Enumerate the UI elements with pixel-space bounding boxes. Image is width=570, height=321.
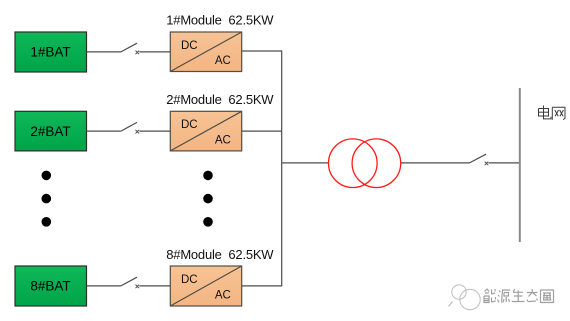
svg-text:DC: DC: [181, 40, 198, 52]
wire module8 to bus: [242, 285, 282, 287]
wire battery2 to switch2: [87, 130, 121, 132]
switch S1: [121, 43, 139, 54]
svg-text:AC: AC: [215, 289, 231, 301]
svg-text:DC: DC: [181, 119, 198, 131]
converter module U2: [170, 111, 241, 151]
switch S8: [121, 277, 139, 288]
switch S9 grid breaker: [470, 154, 489, 165]
svg-text:AC: AC: [215, 134, 231, 146]
svg-text:2#BAT: 2#BAT: [30, 124, 70, 139]
converter module U8: [170, 266, 241, 306]
wire battery8 to switch8: [87, 285, 121, 287]
svg-text:2#Module 62.5KW: 2#Module 62.5KW: [166, 92, 274, 107]
bus vertical line: [281, 50, 283, 286]
wire battery1 to switch1: [87, 51, 121, 53]
ellipsis dots right column: [203, 171, 213, 227]
ellipsis dots left column: [42, 171, 52, 227]
svg-text:8#Module 62.5KW: 8#Module 62.5KW: [166, 247, 274, 262]
battery 1#BAT: [15, 32, 87, 72]
svg-text:AC: AC: [215, 55, 231, 67]
watermark logo icon: [449, 285, 481, 310]
wire module1 to bus: [242, 50, 282, 52]
wire switch2 to module2: [139, 130, 170, 132]
label 电网 (grid): [539, 106, 566, 120]
wire transformer to switch9: [401, 162, 470, 164]
watermark text 能源生态圈: [484, 289, 554, 303]
grid bus line: [519, 88, 521, 242]
wire bus to transformer: [282, 162, 329, 164]
converter module U1: [170, 32, 241, 72]
battery 8#BAT: [15, 266, 87, 306]
transformer T1: [329, 139, 401, 188]
svg-text:1#BAT: 1#BAT: [30, 45, 70, 60]
switch S2: [121, 122, 139, 133]
svg-text:8#BAT: 8#BAT: [30, 279, 70, 294]
svg-text:1#Module 62.5KW: 1#Module 62.5KW: [166, 13, 274, 28]
wire module2 to bus: [242, 130, 282, 132]
svg-text:DC: DC: [181, 274, 198, 286]
wire switch8 to module8: [139, 285, 170, 287]
wire switch1 to module1: [139, 51, 170, 53]
battery 2#BAT: [15, 111, 87, 151]
wire switch9 to grid: [489, 162, 520, 164]
